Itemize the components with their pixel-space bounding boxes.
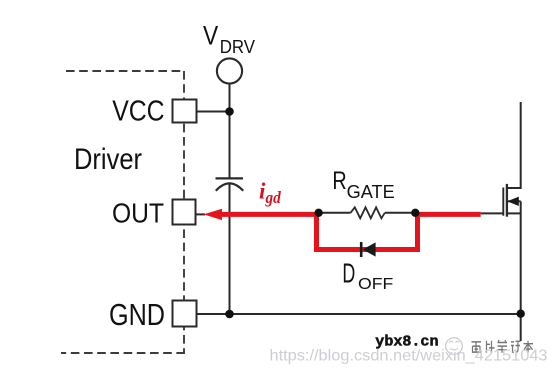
svg-text:D: D bbox=[342, 258, 355, 289]
svg-text:DRV: DRV bbox=[220, 36, 256, 57]
svg-text:Driver: Driver bbox=[74, 143, 142, 176]
svg-text:V: V bbox=[203, 21, 218, 51]
svg-text:OUT: OUT bbox=[112, 198, 164, 229]
svg-text:OFF: OFF bbox=[358, 276, 393, 293]
svg-text:GATE: GATE bbox=[347, 182, 395, 202]
svg-text:VCC: VCC bbox=[112, 96, 164, 128]
svg-text:R: R bbox=[332, 167, 346, 195]
svg-text:GND: GND bbox=[109, 297, 165, 332]
svg-text:https://blog.csdn.net/weixin_4: https://blog.csdn.net/weixin_42151043 bbox=[270, 347, 548, 364]
svg-text:gd: gd bbox=[265, 188, 282, 207]
